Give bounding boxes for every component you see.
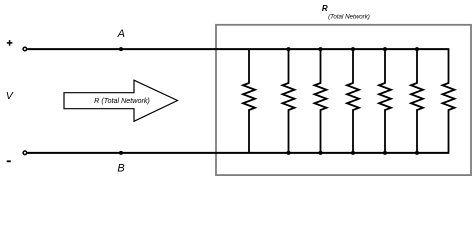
junction bottom of R5: [383, 151, 387, 155]
junction top of R4: [351, 47, 355, 51]
svg-text:R (Total Network): R (Total Network): [94, 96, 150, 105]
junction top of R5: [383, 47, 387, 51]
resistor R3: [315, 49, 327, 153]
resistor R7: [443, 49, 455, 153]
resistor R5: [379, 49, 391, 153]
resistor R1: [243, 49, 255, 153]
wire top rail from + terminal through node A to last branch: [27, 48, 449, 50]
junction top of R6: [415, 47, 419, 51]
terminal + (open circle): [23, 47, 27, 51]
svg-text:R: R: [322, 4, 328, 13]
junction bottom of R4: [351, 151, 355, 155]
arrow R (Total Network) equivalent resistance: [64, 80, 178, 121]
label + polarity: [7, 40, 13, 46]
terminal - (open circle): [23, 151, 27, 155]
total network boundary box: [216, 25, 471, 175]
node B junction dot: [119, 151, 123, 155]
svg-text:V: V: [6, 90, 14, 102]
svg-text:B: B: [117, 163, 124, 175]
svg-text:(Total Network): (Total Network): [328, 14, 370, 21]
junction top of R2: [287, 47, 291, 51]
junction bottom of R2: [287, 151, 291, 155]
label - polarity: [7, 160, 11, 162]
resistor R6: [411, 49, 423, 153]
junction top of R3: [319, 47, 323, 51]
junction bottom of R3: [319, 151, 323, 155]
node A junction dot: [119, 47, 123, 51]
junction bottom of R6: [415, 151, 419, 155]
resistor R4: [347, 49, 359, 153]
wire bottom rail from - terminal through node B to last branch: [27, 152, 449, 154]
svg-text:A: A: [117, 28, 125, 40]
resistor R2: [283, 49, 295, 153]
